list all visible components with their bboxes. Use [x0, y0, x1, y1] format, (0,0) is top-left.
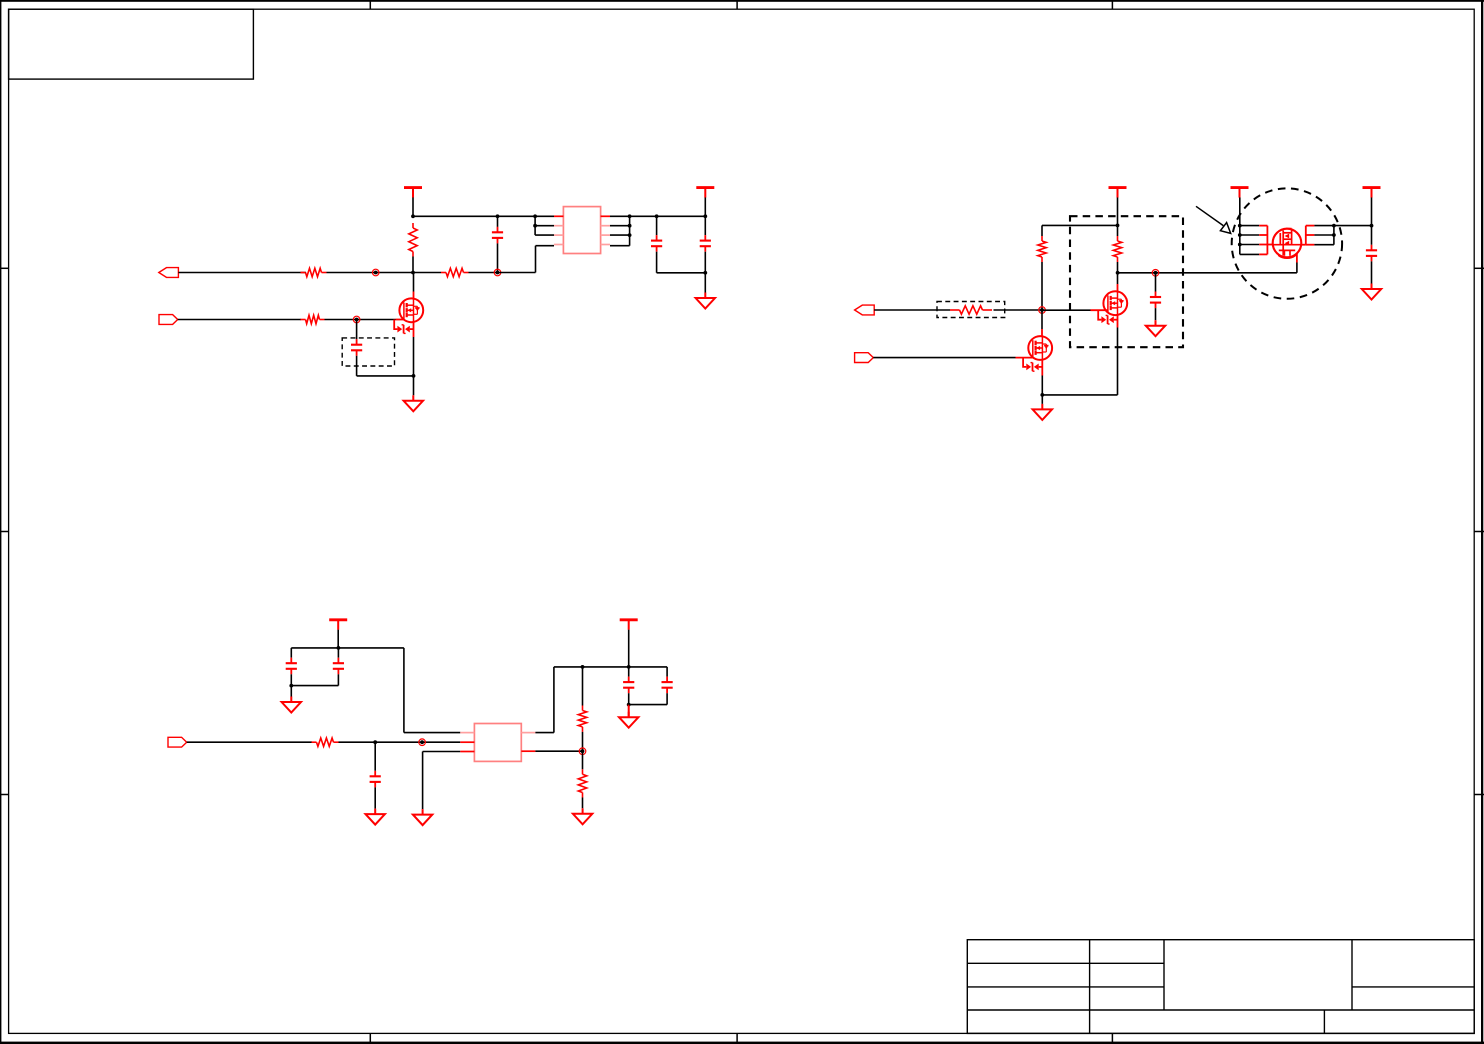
wire U1 right pin bus: [610, 216, 630, 245]
dashed box around C3: [342, 338, 394, 366]
wire output rail: [554, 666, 667, 668]
junction VCC3 rail: [1116, 224, 1120, 228]
transistor Q2: [1028, 336, 1052, 360]
wire VCC3 to R5 top: [1042, 225, 1118, 236]
wire P2 to R4: [178, 319, 301, 321]
dashed circle highlight: [1232, 188, 1342, 298]
transistor Q3: [1103, 291, 1127, 315]
junction at rail / U1 pin 1: [533, 214, 537, 218]
wire P1 to R2: [178, 272, 306, 274]
power symbol VCC6: [329, 620, 347, 648]
transistor Q1: [399, 298, 423, 322]
port P4 input: [855, 353, 874, 363]
port P1 input: [159, 268, 179, 278]
wire R3 to node B: [469, 272, 498, 274]
wire Q4 right pins: [1314, 226, 1334, 245]
wire R6 to node D: [994, 309, 1043, 311]
wire C7 return: [291, 685, 338, 687]
power symbol VCC2: [696, 188, 714, 217]
dashed box around R6: [937, 302, 1005, 318]
IC U1: [554, 207, 610, 254]
junction U1 right pin 1: [628, 214, 632, 218]
wire C1 to ground rail: [657, 272, 706, 274]
junction Q4 drain 2: [1332, 233, 1336, 237]
wire Q4 left pins: [1240, 226, 1259, 255]
wire U1 left pin bus: [535, 216, 554, 235]
capacitor C1: [651, 216, 662, 272]
junction U1 left pin 2: [533, 224, 537, 228]
wire Q3 drain: [1117, 273, 1119, 292]
wire C3 to Q1 source: [357, 375, 414, 377]
junction U1 right pin 3: [628, 233, 632, 237]
wire P3 to R6: [874, 309, 950, 311]
wire U2 pin R2 to node G: [535, 750, 582, 752]
ground GND2: [404, 376, 423, 411]
transistor Q4 left pin stubs: [1259, 226, 1267, 255]
wire Q2 source: [1041, 360, 1043, 395]
wire out line: [1118, 272, 1297, 274]
wire node D to Q3 gate: [1042, 309, 1108, 311]
diode D3 TVS: [1098, 310, 1117, 324]
wire R4 to Q1 gate: [325, 319, 405, 321]
ground GND6: [282, 697, 301, 713]
capacitor C10: [662, 667, 673, 705]
wire R2 to node A: [327, 272, 414, 274]
node F: [419, 739, 426, 746]
wire U2 pin 3 to ground: [423, 752, 461, 810]
annotation arrow: [1196, 206, 1231, 233]
node A: [372, 269, 379, 276]
wire U2 out to rail: [535, 667, 554, 733]
IC U2: [460, 724, 535, 762]
ground GND7: [366, 809, 385, 825]
resistor R9: [578, 667, 586, 751]
junction Q4 pin G: [1238, 243, 1242, 247]
junction VCC6 rail: [337, 646, 341, 650]
diode D2 TVS: [1023, 358, 1042, 372]
wire VCC6 rail: [291, 647, 404, 649]
capacitor C5: [1366, 226, 1377, 284]
wire P4 to Q2 gate: [873, 357, 1033, 359]
port P2 input: [159, 315, 178, 325]
junction Q1 source / C3: [412, 374, 416, 378]
capacitor C6: [286, 648, 297, 697]
junction rail / R9: [581, 665, 585, 669]
junction at rail / C1: [496, 214, 500, 218]
ground GND3: [1033, 395, 1052, 420]
power symbol VCC5: [1363, 188, 1381, 226]
ground GND9: [573, 808, 592, 824]
node G: [579, 748, 586, 755]
transistor Q4 right pin stubs: [1301, 226, 1314, 245]
capacitor C4: [1150, 273, 1161, 320]
ground GND10: [619, 705, 638, 728]
ground GND5: [1362, 284, 1381, 300]
wire source rail: [1042, 394, 1117, 396]
capacitor C9: [623, 667, 634, 705]
junction C2 ground rail: [703, 271, 707, 275]
wire rail to U2 pin 1: [404, 648, 460, 733]
junction U1 right pin 2: [628, 224, 632, 228]
wire Q1 source: [413, 322, 415, 376]
ground GND1: [696, 273, 715, 309]
junction VCC2 / out rail: [703, 214, 707, 218]
ground GND8: [413, 809, 432, 825]
junction R1 / main line: [411, 271, 415, 275]
node C: [353, 316, 360, 323]
capacitor C8: [370, 742, 381, 808]
wire Q4 to VCC5 rail: [1334, 225, 1372, 227]
dashed box around Q3: [1070, 216, 1183, 347]
power symbol VCC3: [1109, 188, 1127, 226]
port P5 input: [168, 737, 187, 747]
node D: [1039, 307, 1046, 314]
wire Q2 drain: [1041, 310, 1043, 336]
resistor R6: [950, 306, 992, 314]
resistor R2: [301, 268, 327, 276]
wire VCC1 rail: [413, 215, 554, 217]
capacitor C0: [492, 216, 503, 272]
resistor R8: [312, 738, 339, 746]
wire C10 return: [629, 704, 667, 706]
junction C9 / C10 return: [627, 703, 631, 707]
resistor R1: [409, 223, 417, 273]
junction rail / VCC7: [627, 665, 631, 669]
junction R7 / out line: [1116, 271, 1120, 275]
junction C8 tap: [373, 740, 377, 744]
capacitor C7: [333, 648, 344, 686]
power symbol VCC7: [620, 620, 638, 667]
resistor R10: [578, 751, 586, 808]
resistor R3: [413, 268, 469, 276]
capacitor C2: [700, 216, 711, 272]
power symbol VCC4: [1231, 188, 1249, 255]
junction Q4 drain 1: [1332, 224, 1336, 228]
wire Q3 source: [1117, 315, 1119, 395]
junction Q4 pin S1: [1238, 224, 1242, 228]
wire R8 to U2 pin 2: [339, 741, 461, 743]
junction VCC5 rail: [1370, 224, 1374, 228]
resistor R7: [1113, 225, 1121, 272]
junction source rail / ground: [1040, 393, 1044, 397]
junction Q4 pin S2: [1238, 233, 1242, 237]
wire Q4 gate lead: [1267, 244, 1272, 246]
diode D1 TVS: [394, 320, 413, 334]
wire Q1 drain: [413, 273, 415, 299]
port P3 input: [855, 305, 875, 315]
capacitor C3: [351, 320, 362, 376]
junction at VCC1 rail / R1: [411, 214, 415, 218]
wire Q4 source down: [1296, 253, 1298, 273]
wire P5 to R8: [187, 741, 312, 743]
junction out rail / C1b: [655, 214, 659, 218]
node E: [1152, 270, 1159, 277]
resistor R5: [1038, 236, 1046, 310]
transistor Q4: [1273, 229, 1302, 259]
power symbol VCC1: [404, 188, 422, 217]
resistor R4: [301, 315, 325, 323]
wire U1 out rail: [630, 215, 706, 217]
node B: [494, 269, 501, 276]
junction C6 / C7 return: [289, 684, 293, 688]
wire node B to U1 pin 4: [498, 246, 555, 273]
ground GND4: [1146, 320, 1165, 336]
